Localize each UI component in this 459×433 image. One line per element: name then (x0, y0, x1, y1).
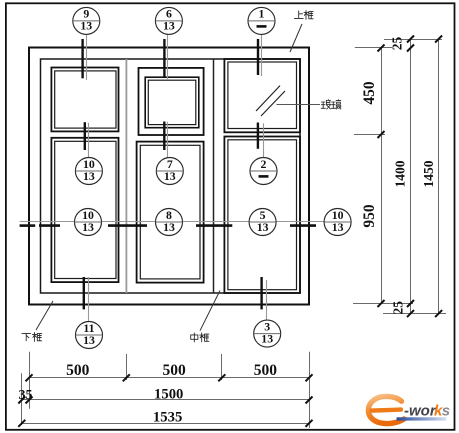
balloon 2 (250, 157, 277, 185)
leader of balloon 1 (258, 34, 262, 76)
e-works logo (368, 396, 450, 423)
glass symbol diagonal 2 (261, 91, 285, 116)
leader of balloon 2 (258, 123, 264, 158)
label zhongkuang (middle frame) (191, 333, 209, 342)
dim line 25-1400-25 (410, 40, 412, 314)
svg-text:13: 13 (80, 19, 92, 33)
balloon 8/13 (156, 208, 183, 236)
right upper glass panel outer (224, 59, 300, 132)
dim line 1535 (22, 423, 309, 425)
svg-text:35: 35 (19, 388, 33, 403)
svg-text:13: 13 (83, 169, 95, 183)
middle upper sash rect (139, 68, 204, 135)
label leader shangkuang (290, 24, 302, 52)
mid cut mark crossing left frame (20, 224, 36, 227)
right dims extension line frame bottom (353, 303, 413, 305)
label leader zhongkuang (middle frame) (200, 291, 220, 331)
mid cut mark crossing right frame (290, 224, 316, 227)
bottom dims extension lines (29, 352, 31, 409)
leader of balloon 9/13 (83, 34, 87, 80)
leader of balloon 7/13 (164, 122, 167, 158)
ticks right dims (378, 36, 443, 318)
svg-text:13: 13 (83, 333, 95, 347)
leader of balloon 6/13 (164, 34, 167, 80)
window outer frame (29, 48, 309, 305)
svg-text:13: 13 (261, 331, 273, 345)
right lower panel inner (228, 140, 297, 290)
leader of balloon 3/13 (262, 277, 267, 320)
svg-text:25: 25 (390, 37, 405, 51)
middle upper panel inner (148, 80, 196, 124)
svg-text:13: 13 (332, 220, 344, 234)
balloon 6/13 (155, 7, 182, 35)
middle lower panel inner (140, 145, 200, 279)
svg-text:1450: 1450 (421, 160, 436, 187)
label leader xiakuang (bottom frame) (36, 301, 53, 330)
logo e crossbar (369, 407, 403, 413)
svg-text:500: 500 (162, 362, 186, 379)
right dims extension line frame top (355, 47, 392, 49)
label boli (glass) (321, 100, 341, 110)
svg-text:13: 13 (164, 169, 176, 183)
right dims extension line mid rail (354, 134, 385, 136)
label shangkuang (top frame) (294, 10, 313, 19)
leader of balloon 10/13 upper (85, 122, 89, 157)
dim line 450-950 (381, 48, 383, 304)
sash boundary line left-middle (125, 59, 127, 293)
balloon 5/13 (249, 208, 276, 236)
sash boundary line middle-right (213, 59, 215, 293)
svg-text:13: 13 (82, 220, 94, 234)
svg-text:2: 2 (261, 157, 267, 171)
balloon 1 (248, 7, 275, 35)
dim line 500x3 (29, 377, 309, 379)
mid cut mark crossing left panel stile (39, 224, 60, 227)
right dims extension line top 1450 (384, 39, 442, 41)
svg-text:s: s (442, 402, 450, 419)
left lower panel inner (55, 141, 116, 278)
window inner frame rect (41, 59, 301, 293)
balloon 3/13 (254, 319, 281, 347)
right dims extension line bottom 1450 (383, 313, 446, 315)
svg-text:25: 25 (391, 301, 406, 315)
dim line 35+1500 (22, 399, 309, 401)
label xiakuang (bottom frame) (22, 332, 42, 341)
svg-text:13: 13 (163, 220, 175, 234)
left lower panel outer (51, 138, 118, 282)
right upper glass panel inner (228, 62, 297, 129)
mid cut mark crossing middle-right mullion (196, 224, 232, 227)
svg-text:500: 500 (66, 362, 90, 379)
svg-text:1535: 1535 (153, 410, 182, 426)
ticks bottom dims (18, 374, 312, 427)
left upper panel outer (51, 68, 118, 132)
svg-text:13: 13 (257, 220, 269, 234)
balloon 10/13 upper (75, 157, 102, 185)
mid horizontal leader line (20, 221, 352, 223)
middle lower panel outer (137, 142, 204, 283)
balloon 7/13 (156, 157, 183, 185)
svg-text:-wor: -wor (404, 402, 437, 419)
svg-text:1400: 1400 (393, 160, 408, 187)
balloon 10/13 mid left (75, 208, 102, 236)
glass symbol diagonal 1 (256, 86, 280, 111)
logo blue bar (397, 417, 447, 420)
dim line 1450 (438, 39, 440, 314)
middle upper panel outer (145, 77, 199, 128)
balloon 11/13 (76, 321, 103, 349)
mid cut mark crossing left-middle mullion (108, 224, 147, 227)
svg-text:950: 950 (361, 204, 378, 228)
left upper panel inner (55, 71, 116, 128)
svg-text:1: 1 (259, 7, 265, 21)
label leader boli (glass) (277, 104, 321, 106)
leader of balloon 11/13 (84, 277, 89, 322)
svg-text:1500: 1500 (154, 387, 183, 403)
balloon 10/13 mid right (324, 208, 351, 236)
svg-text:450: 450 (361, 81, 378, 105)
svg-text:13: 13 (163, 19, 175, 33)
svg-text:500: 500 (254, 362, 278, 379)
balloon 9/13 (73, 7, 100, 35)
logo big e swoosh (368, 396, 404, 423)
right lower panel outer (224, 137, 300, 294)
